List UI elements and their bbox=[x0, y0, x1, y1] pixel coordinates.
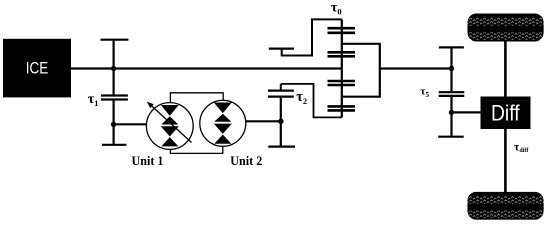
gear mesh pair 4 bbox=[328, 106, 356, 110]
node C (unit2 shaft / shaft B junction) bbox=[278, 119, 283, 124]
shaft B bottom bearing tick bbox=[268, 146, 295, 148]
planet carrier bracket bbox=[342, 44, 380, 97]
shaft B vertical wire bbox=[280, 84, 282, 147]
node A (main shaft / countershaft junction) bbox=[111, 66, 116, 71]
svg-text:Diff: Diff bbox=[491, 101, 520, 126]
main shaft wire from ICE to planetary bbox=[71, 67, 342, 69]
ICE engine box bbox=[3, 39, 71, 98]
shaft C top bearing tick bbox=[439, 46, 464, 48]
wire to differential bbox=[452, 111, 481, 113]
rear wheel (bottom tire) bbox=[467, 192, 543, 220]
step wire from sun pinion to ring top bbox=[282, 19, 342, 55]
gear mesh tau5 bbox=[439, 92, 465, 96]
shaft A top bearing tick bbox=[101, 39, 129, 41]
svg-text:Unit 2: Unit 2 bbox=[230, 153, 262, 168]
gear mesh tau2 bbox=[268, 91, 294, 97]
hydraulic hose top link bbox=[170, 93, 223, 103]
shaft A bottom bearing tick bbox=[102, 144, 127, 146]
front wheel (top tire) bbox=[467, 14, 543, 42]
planet shaft vertical wire bbox=[341, 19, 343, 117]
axle wire between wheels bbox=[504, 41, 507, 192]
shaft C vertical wire bbox=[450, 47, 452, 136]
wire Unit 2 to shaft B bbox=[246, 120, 281, 122]
gear mesh tau1 bbox=[101, 96, 128, 100]
hydraulic unit 2 (motor) bbox=[200, 100, 246, 146]
gear mesh tau0 bbox=[328, 28, 356, 33]
differential box bbox=[481, 97, 531, 130]
node E (shaft C / diff input junction) bbox=[449, 110, 454, 115]
shaft C bottom bearing tick bbox=[438, 136, 464, 138]
output shaft wire bbox=[380, 67, 452, 69]
svg-text:Unit 1: Unit 1 bbox=[132, 153, 164, 168]
countershaft A vertical wire bbox=[112, 40, 114, 145]
gear tick on main shaft (sun pinion) bbox=[269, 47, 294, 49]
gear mesh pair 2 bbox=[328, 52, 356, 56]
hydraulic unit 1 (variable pump) bbox=[146, 102, 193, 150]
svg-text:ICE: ICE bbox=[26, 60, 49, 78]
node D (output shaft / shaft C junction) bbox=[449, 66, 454, 71]
gear mesh pair 3 bbox=[328, 81, 356, 85]
wire to Unit 1 bbox=[114, 123, 147, 125]
bracket wire from tau2 to ring gear bbox=[281, 84, 342, 118]
node B (countershaft / unit1 shaft junction) bbox=[111, 122, 116, 127]
hydraulic hose bottom link bbox=[170, 146, 222, 153]
